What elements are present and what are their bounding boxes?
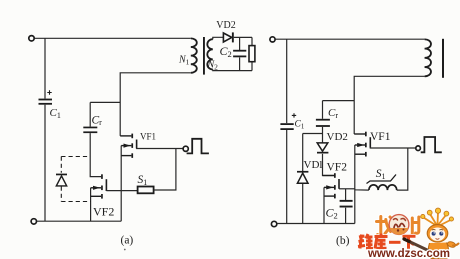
- watermark pen: [404, 239, 436, 256]
- wire C2 branch upper (a): [239, 37, 241, 50]
- wire Cr link horizontal (a): [90, 101, 120, 103]
- watermark text 维库一下 outline: [358, 234, 416, 249]
- wire VF1 source down (b): [354, 145, 356, 224]
- wire N1 bottom to VF1 drain node (a): [120, 73, 191, 136]
- wire Cr top (b): [322, 101, 324, 119]
- wire S1 to gate node (a): [154, 149, 176, 191]
- watermark char 找 white outline: [377, 217, 419, 236]
- transistor VF2 (b): [323, 173, 340, 198]
- diode VD2 (b): [317, 143, 328, 154]
- transformer primary coil (b): [425, 39, 431, 76]
- diode VD1 (b): [297, 171, 308, 183]
- transformer secondary N2 (a): [207, 39, 213, 69]
- wire link to VD1 (b): [303, 133, 323, 135]
- capacitor C1 (a): [39, 90, 53, 104]
- wire top rail (b): [275, 38, 424, 40]
- wire VF1 source down (a): [120, 146, 122, 222]
- diode VD2 (a): [223, 32, 233, 42]
- square wave symbol (a): [187, 139, 209, 154]
- capacitor Cr (b): [316, 119, 330, 127]
- terminal gate drive (a): [183, 146, 188, 151]
- resistor load (a): [249, 46, 255, 62]
- wire bottom rail (a): [37, 220, 121, 222]
- transformer core (b): [442, 39, 444, 78]
- wire VD1 branch upper (b): [302, 134, 304, 172]
- wire VF1 gate to drive (b): [370, 147, 416, 149]
- wire bottom rail (b): [277, 223, 355, 225]
- wire VD2 to VF2 drain (b): [323, 154, 335, 176]
- wire Cr link horizontal (b): [323, 100, 355, 102]
- watermark logo circle: [389, 214, 410, 235]
- terminal input top (a): [29, 36, 34, 41]
- wire C2 branch (b): [345, 189, 347, 224]
- wire VF2 gate to S1 (a): [106, 190, 137, 192]
- wire left rail (a) upper: [44, 38, 46, 98]
- capacitor C2 (a): [233, 50, 246, 58]
- wire left rail (b) upper: [286, 39, 288, 123]
- body diode dashed box (a): [61, 157, 90, 202]
- terminal input bottom (a): [31, 219, 36, 224]
- watermark char 找: [377, 217, 393, 236]
- svg-text:VF1: VF1: [140, 131, 156, 141]
- wire N2 bottom rail (a): [213, 70, 252, 71]
- transistor VF1 (b): [354, 132, 370, 157]
- capacitor Cr (a): [83, 127, 97, 133]
- svg-text:VF1: VF1: [370, 131, 391, 143]
- capacitor C2 (b): [340, 200, 353, 208]
- diode body VF2 (a): [56, 174, 67, 186]
- wire S1 node horizontal (b): [355, 189, 369, 190]
- switch stroke S1 (b): [367, 175, 397, 184]
- wire S1 right to gate wire (b): [397, 148, 408, 190]
- terminal gate drive (b): [416, 146, 421, 151]
- svg-text:(a): (a): [121, 235, 134, 247]
- wire coil bottom to VF1 drain (b): [354, 76, 424, 134]
- transistor VF2 (a): [91, 174, 107, 198]
- transistor VF1 (a): [120, 134, 136, 158]
- watermark char 片: [412, 217, 419, 235]
- watermark mascot: [421, 208, 459, 258]
- wire N2 top to diode (a): [213, 37, 224, 39]
- svg-text:www.dzsc.com: www.dzsc.com: [367, 248, 450, 259]
- terminal input top (b): [270, 37, 275, 42]
- wire C2 branch lower (a): [239, 58, 241, 71]
- square wave symbol (b): [421, 137, 442, 152]
- svg-text:VD2: VD2: [216, 20, 235, 31]
- wire Cr top (a): [89, 102, 91, 126]
- wire VD1 branch lower (b): [302, 184, 304, 224]
- inductor S1 (b): [369, 185, 397, 190]
- wire top rail (a): [35, 37, 191, 39]
- watermark text 维库一下: [358, 234, 416, 249]
- wire VF2 source down (a): [90, 188, 92, 221]
- terminal input bottom (b): [271, 221, 276, 226]
- svg-text:VD2: VD2: [327, 131, 348, 143]
- wire VF2 gate node (b): [339, 188, 355, 190]
- speck under label (a): [124, 249, 126, 251]
- transformer primary N1 (a): [191, 38, 197, 72]
- wire diode to load branch (a): [234, 36, 252, 38]
- wire load branch right (a): [251, 37, 253, 70]
- capacitor C1 (b): [280, 113, 296, 130]
- transformer core (a): [203, 37, 205, 75]
- resistor S1 (a): [138, 187, 154, 194]
- wire VF2 source down (b): [323, 187, 325, 223]
- wire VF1 gate to drive (a): [137, 147, 183, 149]
- wire Cr bottom to VF2 drain (a): [90, 133, 101, 177]
- svg-text:VDl: VDl: [304, 159, 323, 171]
- wire left rail (a) lower: [44, 105, 46, 222]
- svg-text:(b): (b): [336, 235, 350, 247]
- wire left rail (b) lower: [286, 130, 288, 224]
- svg-text:VF2: VF2: [327, 162, 348, 174]
- svg-text:VF2: VF2: [93, 204, 114, 218]
- wire Cr bottom to VD2 (b): [322, 127, 324, 143]
